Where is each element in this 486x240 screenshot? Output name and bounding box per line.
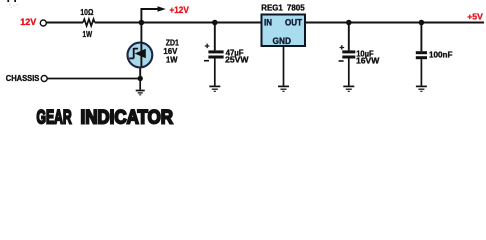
svg-text:REG1: REG1 [261,3,283,12]
svg-text:25VW: 25VW [225,55,249,65]
svg-text:GEAR: GEAR [37,106,72,128]
svg-text:+5V: +5V [467,11,483,21]
svg-text:GND: GND [273,36,292,46]
svg-text:1W: 1W [166,55,178,65]
svg-text:16VW: 16VW [356,56,380,66]
svg-text:INDICATOR: INDICATOR [81,106,174,128]
svg-text:IN: IN [264,17,272,27]
svg-text:+: + [205,41,210,51]
svg-text:12V: 12V [20,17,36,27]
svg-text:100nF: 100nF [429,50,453,60]
svg-text:10Ω: 10Ω [80,7,93,17]
svg-text:+: + [339,42,344,52]
svg-text:CHASSIS: CHASSIS [6,74,40,83]
svg-text:OUT: OUT [285,17,302,27]
svg-text:+12V: +12V [170,5,189,15]
svg-text:1W: 1W [83,29,93,39]
svg-text:7805: 7805 [287,3,305,12]
